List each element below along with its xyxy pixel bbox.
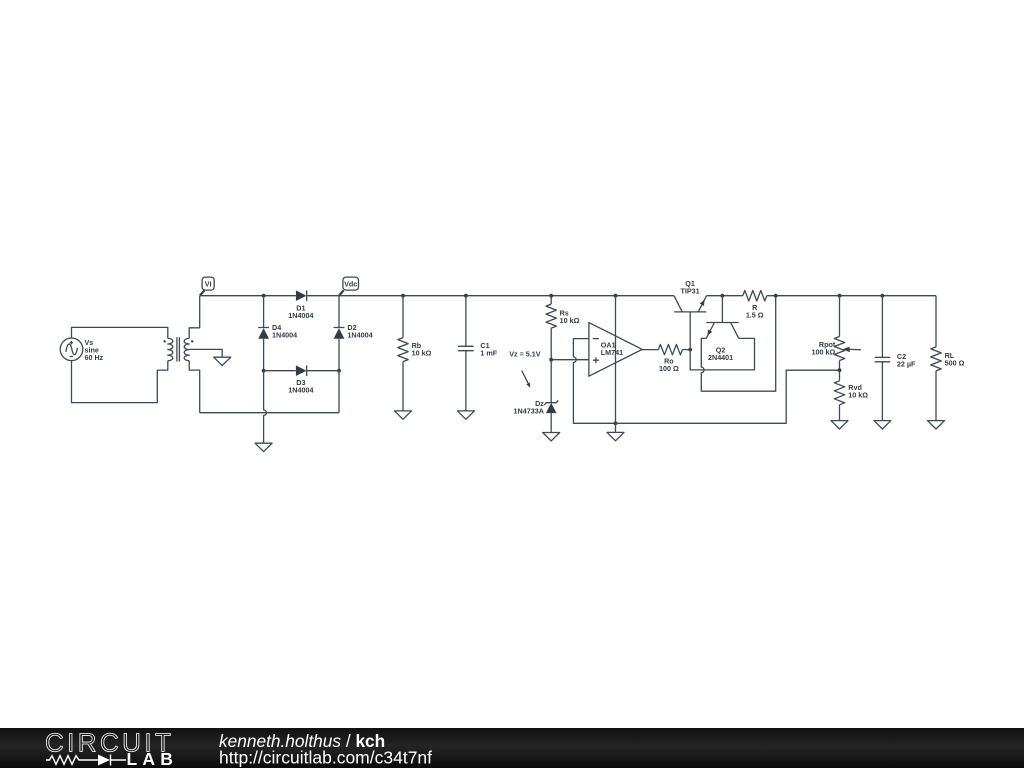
svg-text:LM741: LM741 — [601, 348, 623, 357]
wire R to RL corner — [767, 295, 936, 297]
svg-text:10 kΩ: 10 kΩ — [848, 391, 868, 400]
svg-text:http://circuitlab.com/c34t7nf: http://circuitlab.com/c34t7nf — [219, 748, 432, 768]
CircuitLab logo resistor-diode squiggle — [46, 756, 98, 765]
svg-text:1N4733A: 1N4733A — [514, 406, 544, 415]
svg-text:10 kΩ: 10 kΩ — [412, 348, 432, 357]
resistor R 1.5 — [743, 291, 767, 320]
wire node to op-amp + input — [551, 359, 589, 361]
svg-text:100 kΩ: 100 kΩ — [812, 347, 836, 356]
capacitor C1 1mF — [457, 294, 497, 419]
transistor Q1 TIP31 — [674, 279, 707, 349]
node Rs/Dz/+input — [549, 358, 553, 362]
svg-text:LAB: LAB — [127, 749, 179, 768]
wire secondary center tap — [189, 349, 222, 357]
node VI flag — [200, 277, 214, 295]
junction Ro / Q1 base — [688, 348, 692, 352]
svg-text:500 Ω: 500 Ω — [945, 358, 965, 367]
wire Q1 base to Q2 collector — [690, 338, 754, 370]
junction Rpot / Rvd / feedback — [838, 368, 842, 372]
resistor Rs 10k — [546, 294, 580, 360]
junction Q2 base / rail — [721, 294, 725, 298]
svg-text:1 mF: 1 mF — [480, 348, 497, 357]
annotation Vz = 5.1V with arrow — [509, 350, 541, 388]
transistor Q2 2N4401 — [706, 296, 739, 362]
resistor RL 500 — [928, 296, 965, 429]
wire Q2 emitter to output node — [701, 296, 775, 392]
capacitor C2 22uF — [874, 294, 916, 429]
svg-text:Vz = 5.1V: Vz = 5.1V — [509, 350, 541, 359]
footer bar — [0, 728, 1024, 768]
wire secondary top to node VI — [189, 296, 200, 339]
svg-text:1N4004: 1N4004 — [288, 311, 313, 320]
wire Vs bottom to transformer primary bottom — [72, 361, 168, 403]
wire Q1 emitter to rail — [707, 295, 743, 297]
svg-text:1N4004: 1N4004 — [288, 386, 313, 395]
potentiometer Rpot 100k — [812, 294, 861, 370]
ground bridge — [255, 443, 272, 451]
junction D4 anode — [262, 369, 266, 373]
svg-text:60 Hz: 60 Hz — [85, 353, 104, 362]
svg-text:2N4401: 2N4401 — [708, 353, 733, 362]
svg-text:100 Ω: 100 Ω — [659, 364, 679, 373]
wire - input feedback with hop over + input — [573, 339, 839, 424]
junction op-amp V- / ground — [614, 421, 618, 425]
svg-text:1N4004: 1N4004 — [272, 331, 297, 340]
wire bridge node to ground with hop — [264, 371, 267, 444]
wire top rail Vdc to Q1 collector — [339, 295, 674, 297]
wire top rail VI to D1 — [200, 295, 296, 297]
svg-text:1N4004: 1N4004 — [347, 331, 372, 340]
diode D4 1N4004 — [258, 296, 297, 371]
diode D2 1N4004 — [334, 296, 373, 371]
transformer phase dot secondary — [191, 340, 193, 342]
transformer phase dot primary — [164, 340, 166, 342]
resistor Ro 100 — [658, 344, 690, 373]
ground center tap — [214, 357, 231, 365]
svg-text:Vdc: Vdc — [344, 279, 357, 288]
svg-text:TIP31: TIP31 — [681, 287, 700, 296]
svg-text:10 kΩ: 10 kΩ — [560, 316, 580, 325]
wire bottom rail — [200, 412, 339, 414]
junction R right / Q2 emitter — [774, 294, 778, 298]
wire D1 to node Vdc — [307, 295, 339, 297]
resistor Rb 10k — [395, 294, 432, 419]
wire secondary bottom to bottom rail — [189, 361, 200, 413]
transformer core — [177, 337, 180, 361]
diode D3 1N4004 — [264, 365, 339, 394]
diode D1 1N4004 — [288, 290, 313, 320]
zener diode Dz 1N4733A — [514, 360, 560, 441]
node Vdc flag — [339, 277, 358, 295]
svg-text:VI: VI — [205, 279, 212, 288]
svg-text:1.5 Ω: 1.5 Ω — [746, 310, 764, 319]
wire op-amp output to Ro — [642, 349, 658, 351]
transformer primary winding — [168, 338, 173, 360]
voltage source Vs — [60, 338, 103, 362]
svg-text:22 µF: 22 µF — [897, 359, 916, 368]
junction D2 anode — [337, 369, 341, 373]
wire D2/D3 node to bottom rail — [338, 371, 340, 413]
junction node VI/D4 — [262, 294, 266, 298]
op-amp OA1 LM741 — [589, 294, 642, 423]
resistor Rvd 10k — [831, 370, 868, 429]
transformer secondary winding — [184, 338, 189, 360]
ground op-amp — [615, 423, 617, 432]
wire Vs top to transformer primary — [72, 327, 168, 338]
